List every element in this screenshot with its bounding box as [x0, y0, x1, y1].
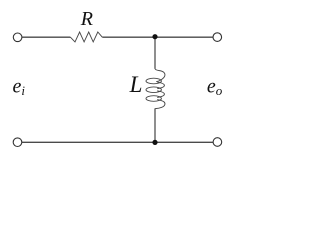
svg-text:R: R	[80, 8, 93, 30]
inductor L hop 1-2	[157, 82, 164, 89]
junction dot top	[152, 34, 157, 39]
terminal bottom-left	[13, 138, 22, 147]
svg-text:eo: eo	[207, 76, 223, 99]
terminal bottom-right	[213, 138, 222, 147]
terminal top-left	[13, 33, 22, 42]
wire bottom horizontal	[22, 141, 213, 143]
inductor L loop 1	[146, 78, 161, 84]
resistor R	[70, 32, 102, 42]
wire top-left horizontal	[22, 36, 70, 38]
inductor L loop 3	[146, 96, 161, 102]
inductor L coil entry hook	[155, 69, 165, 82]
svg-text:L: L	[129, 72, 143, 97]
inductor L hop 2-3	[157, 91, 164, 98]
wire vertical bottom segment	[154, 108, 156, 142]
inductor L loop 2	[146, 87, 161, 93]
wire vertical top segment	[154, 37, 156, 69]
svg-text:ei: ei	[13, 75, 26, 98]
terminal top-right	[213, 33, 222, 42]
junction dot bottom	[152, 140, 157, 145]
inductor L exit hook	[155, 100, 165, 109]
wire top-right horizontal	[102, 36, 213, 38]
